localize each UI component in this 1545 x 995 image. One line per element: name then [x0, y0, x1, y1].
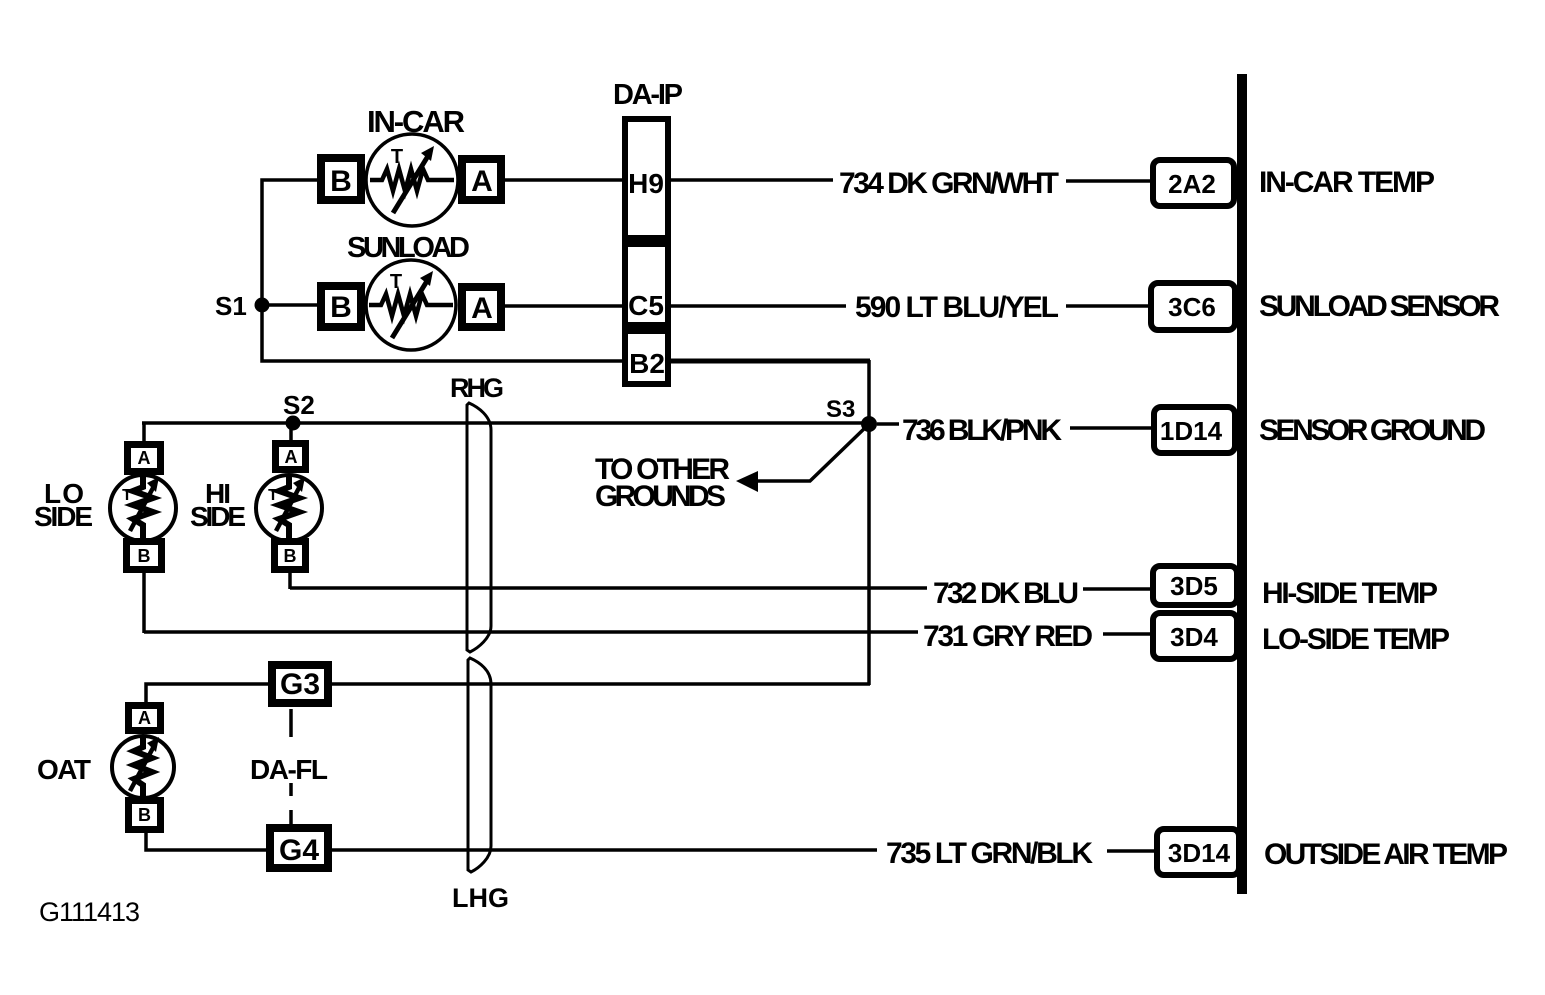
svg-text:SENSOR GROUND: SENSOR GROUND: [1259, 414, 1486, 447]
svg-text:1D14: 1D14: [1160, 416, 1223, 446]
svg-text:2A2: 2A2: [1168, 169, 1216, 199]
svg-text:735 LT GRN/BLK: 735 LT GRN/BLK: [886, 837, 1093, 870]
svg-text:732 DK BLU: 732 DK BLU: [933, 577, 1079, 610]
svg-text:3D4: 3D4: [1170, 622, 1218, 652]
svg-text:3D5: 3D5: [1170, 571, 1218, 601]
svg-text:S3: S3: [826, 396, 855, 423]
svg-text:IN-CAR TEMP: IN-CAR TEMP: [1259, 166, 1435, 199]
svg-text:B: B: [284, 546, 297, 566]
svg-text:IN-CAR: IN-CAR: [367, 104, 465, 139]
svg-text:DA-IP: DA-IP: [613, 79, 683, 111]
svg-text:731 GRY RED: 731 GRY RED: [923, 620, 1093, 653]
svg-text:B: B: [330, 291, 352, 324]
svg-text:T: T: [268, 487, 278, 504]
svg-text:G111413: G111413: [39, 897, 140, 927]
svg-text:T: T: [122, 487, 132, 504]
svg-text:736 BLK/PNK: 736 BLK/PNK: [902, 414, 1062, 447]
svg-text:B: B: [330, 165, 352, 198]
svg-text:T: T: [390, 271, 402, 293]
svg-text:OUTSIDE AIR TEMP: OUTSIDE AIR TEMP: [1264, 838, 1508, 871]
svg-text:G4: G4: [279, 834, 319, 867]
svg-text:SIDE: SIDE: [34, 501, 93, 532]
svg-text:A: A: [138, 708, 151, 728]
svg-text:SUNLOAD: SUNLOAD: [347, 232, 470, 264]
svg-text:OAT: OAT: [37, 754, 91, 785]
svg-text:A: A: [138, 448, 151, 468]
svg-text:B2: B2: [629, 348, 665, 379]
svg-text:DA-FL: DA-FL: [250, 754, 328, 785]
svg-text:A: A: [285, 447, 298, 467]
svg-text:RHG: RHG: [450, 373, 504, 403]
svg-text:3C6: 3C6: [1168, 292, 1216, 322]
svg-text:G3: G3: [280, 668, 320, 701]
svg-text:SUNLOAD SENSOR: SUNLOAD SENSOR: [1259, 290, 1500, 323]
svg-text:A: A: [471, 165, 493, 198]
svg-text:3D14: 3D14: [1168, 838, 1231, 868]
svg-text:LHG: LHG: [452, 883, 509, 913]
svg-text:SIDE: SIDE: [190, 501, 246, 532]
svg-text:590 LT BLU/YEL: 590 LT BLU/YEL: [855, 291, 1059, 324]
svg-text:B: B: [138, 546, 151, 566]
svg-text:T: T: [391, 146, 403, 168]
svg-text:HI-SIDE TEMP: HI-SIDE TEMP: [1262, 577, 1438, 610]
svg-text:A: A: [471, 292, 493, 325]
svg-text:S2: S2: [283, 390, 315, 420]
svg-text:LO-SIDE TEMP: LO-SIDE TEMP: [1262, 623, 1450, 656]
svg-text:B: B: [138, 805, 151, 825]
svg-text:H9: H9: [628, 168, 664, 199]
svg-text:S1: S1: [215, 291, 247, 321]
svg-text:C5: C5: [628, 290, 664, 321]
svg-text:734 DK GRN/WHT: 734 DK GRN/WHT: [839, 167, 1059, 200]
svg-text:GROUNDS: GROUNDS: [595, 480, 726, 513]
